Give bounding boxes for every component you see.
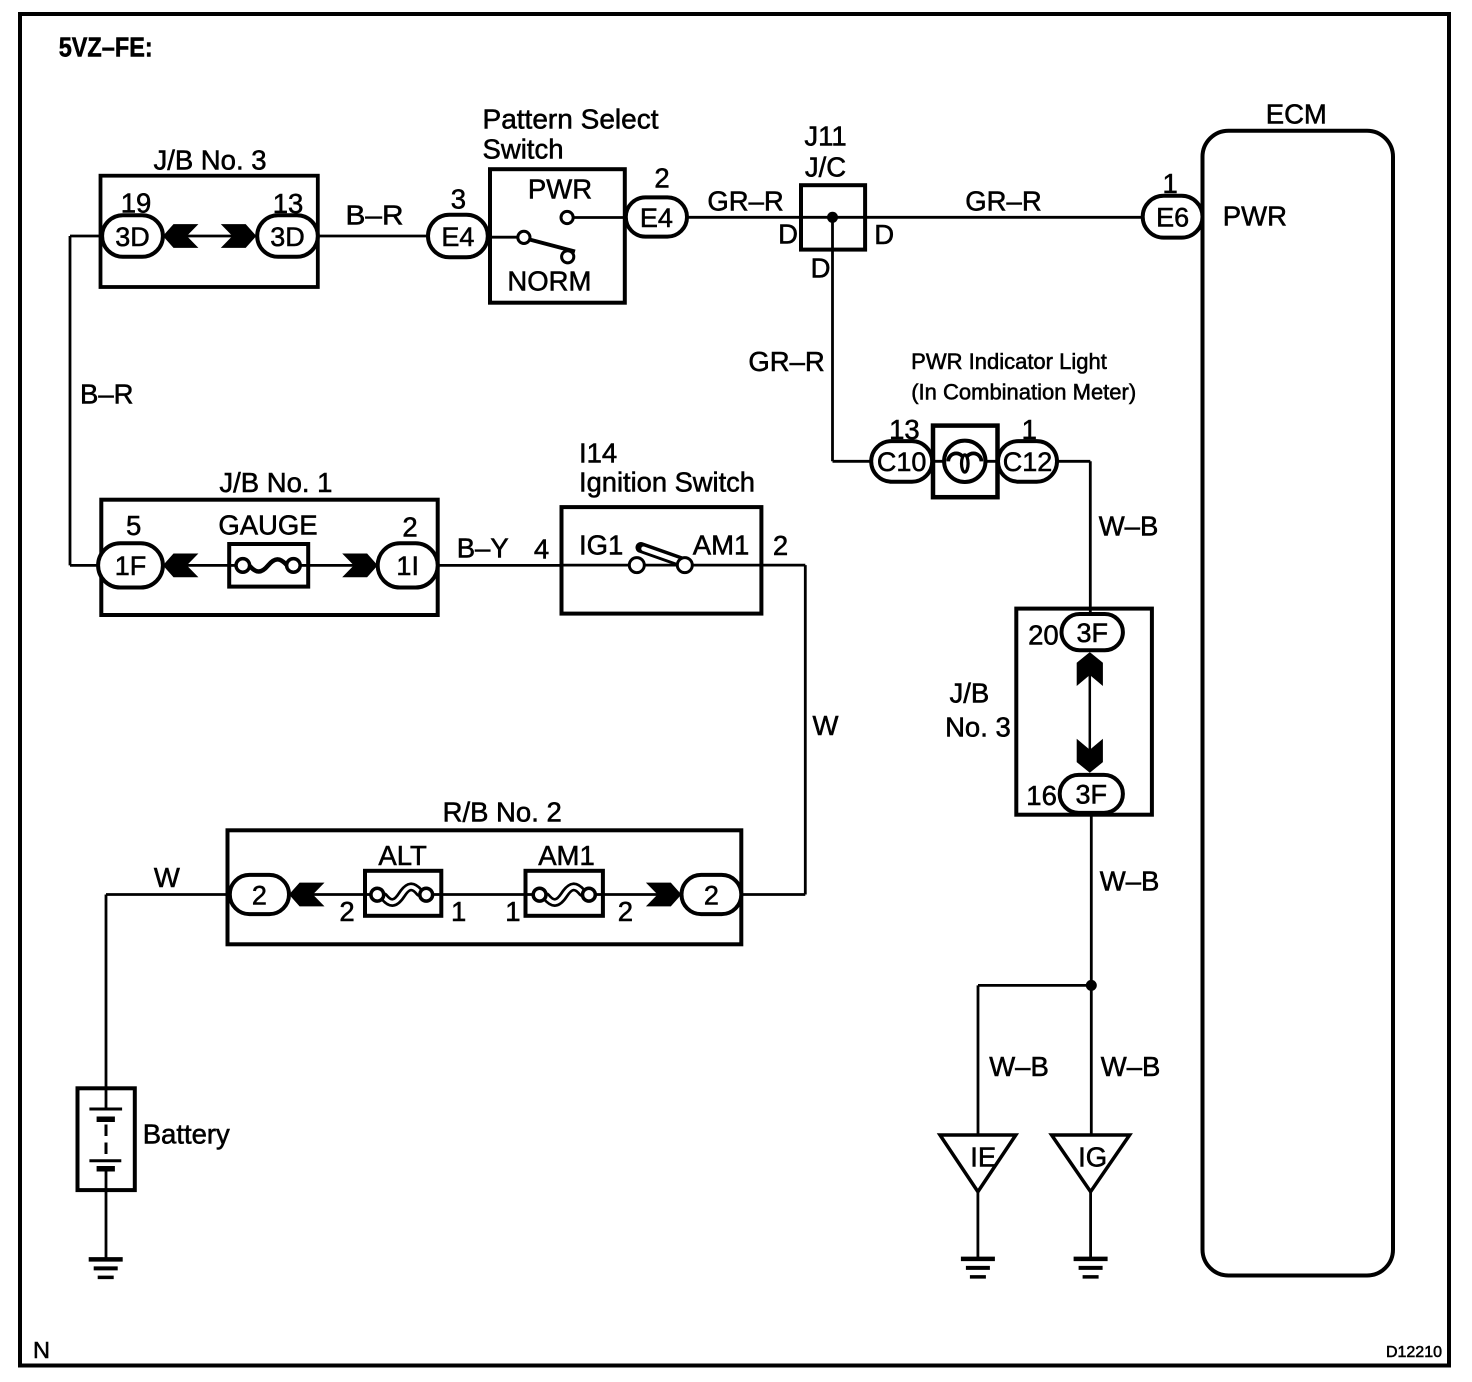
- svg-text:2: 2: [252, 880, 267, 910]
- svg-text:GR–R: GR–R: [707, 186, 783, 217]
- svg-text:W: W: [154, 862, 180, 893]
- svg-text:19: 19: [121, 188, 152, 219]
- svg-text:I14: I14: [579, 438, 617, 469]
- svg-text:1: 1: [1163, 168, 1178, 199]
- svg-text:2: 2: [654, 163, 669, 194]
- svg-text:D12210: D12210: [1386, 1344, 1442, 1361]
- svg-text:ALT: ALT: [378, 840, 427, 871]
- svg-text:W: W: [813, 710, 839, 741]
- svg-text:IG1: IG1: [579, 530, 623, 561]
- svg-text:B–R: B–R: [80, 378, 134, 409]
- svg-text:AM1: AM1: [693, 530, 750, 561]
- svg-text:J/C: J/C: [805, 152, 846, 183]
- svg-text:3F: 3F: [1076, 780, 1108, 810]
- svg-text:1: 1: [1022, 414, 1037, 445]
- svg-text:D: D: [778, 219, 798, 250]
- svg-text:No. 3: No. 3: [945, 712, 1011, 743]
- svg-text:W–B: W–B: [1101, 1051, 1161, 1082]
- svg-text:E6: E6: [1156, 203, 1189, 233]
- svg-text:2: 2: [339, 896, 354, 927]
- svg-text:Battery: Battery: [143, 1119, 230, 1150]
- svg-text:2: 2: [773, 530, 788, 561]
- svg-text:5VZ–FE:: 5VZ–FE:: [59, 32, 153, 63]
- svg-text:B–Y: B–Y: [457, 533, 509, 564]
- svg-text:C12: C12: [1003, 447, 1053, 477]
- svg-text:16: 16: [1026, 780, 1057, 811]
- svg-text:J/B: J/B: [949, 678, 989, 709]
- svg-text:AM1: AM1: [538, 840, 595, 871]
- svg-text:3: 3: [451, 184, 466, 215]
- svg-text:GR–R: GR–R: [965, 186, 1041, 217]
- svg-text:1: 1: [451, 896, 466, 927]
- svg-text:IE: IE: [970, 1142, 996, 1173]
- svg-text:3D: 3D: [115, 222, 150, 252]
- svg-text:2: 2: [704, 880, 719, 910]
- svg-text:20: 20: [1028, 620, 1059, 651]
- svg-text:PWR: PWR: [528, 174, 592, 205]
- svg-text:J/B No. 3: J/B No. 3: [153, 145, 266, 176]
- svg-text:Switch: Switch: [483, 134, 564, 165]
- svg-text:Pattern Select: Pattern Select: [483, 104, 659, 135]
- svg-text:C10: C10: [877, 447, 927, 477]
- svg-text:13: 13: [273, 188, 304, 219]
- svg-text:B–R: B–R: [346, 200, 404, 231]
- svg-text:13: 13: [889, 414, 920, 445]
- svg-text:W–B: W–B: [1099, 511, 1159, 542]
- svg-text:GAUGE: GAUGE: [218, 510, 317, 541]
- svg-text:1I: 1I: [396, 551, 419, 581]
- svg-text:W–B: W–B: [1100, 866, 1160, 897]
- svg-text:E4: E4: [640, 203, 673, 233]
- svg-text:1: 1: [505, 896, 520, 927]
- svg-text:3F: 3F: [1076, 618, 1108, 648]
- svg-text:(In Combination Meter): (In Combination Meter): [911, 380, 1136, 405]
- svg-text:Ignition Switch: Ignition Switch: [579, 467, 755, 498]
- svg-text:PWR Indicator Light: PWR Indicator Light: [911, 349, 1107, 374]
- svg-text:J/B No. 1: J/B No. 1: [219, 467, 332, 498]
- svg-text:R/B No. 2: R/B No. 2: [443, 797, 562, 828]
- svg-text:2: 2: [618, 896, 633, 927]
- svg-text:N: N: [33, 1337, 50, 1363]
- svg-text:IG: IG: [1078, 1142, 1107, 1173]
- svg-text:5: 5: [126, 510, 141, 541]
- svg-text:PWR: PWR: [1223, 201, 1287, 232]
- svg-text:E4: E4: [441, 222, 474, 252]
- svg-text:D: D: [811, 253, 831, 284]
- svg-text:2: 2: [402, 512, 417, 543]
- svg-text:W–B: W–B: [989, 1051, 1049, 1082]
- svg-text:NORM: NORM: [507, 266, 591, 297]
- svg-text:1F: 1F: [115, 551, 147, 581]
- svg-text:D: D: [874, 219, 894, 250]
- svg-text:J11: J11: [804, 121, 846, 152]
- svg-text:4: 4: [534, 534, 549, 565]
- svg-text:3D: 3D: [270, 222, 305, 252]
- svg-text:GR–R: GR–R: [748, 346, 824, 377]
- svg-text:ECM: ECM: [1266, 99, 1327, 130]
